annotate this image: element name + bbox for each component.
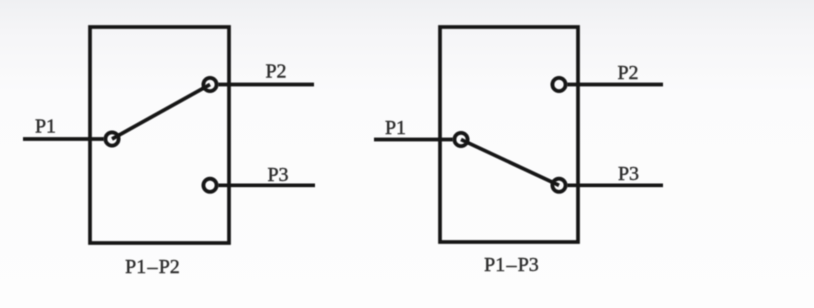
svg-text:P2: P2: [265, 61, 286, 83]
svg-text:P1–P2: P1–P2: [125, 256, 180, 278]
svg-text:P1: P1: [35, 116, 56, 138]
svg-text:P2: P2: [617, 62, 638, 84]
svg-text:P1: P1: [385, 117, 406, 139]
svg-text:P3: P3: [618, 163, 639, 185]
svg-text:P1–P3: P1–P3: [484, 254, 539, 276]
svg-text:P3: P3: [267, 164, 288, 186]
